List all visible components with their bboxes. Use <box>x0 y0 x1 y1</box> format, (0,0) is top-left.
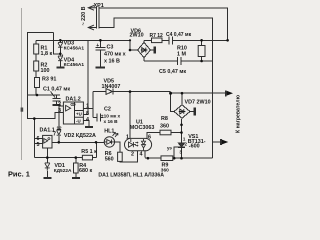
svg-text:1 М: 1 М <box>177 51 186 57</box>
svg-text:+U: +U <box>76 112 82 117</box>
svg-text:470 мк x: 470 мк x <box>104 51 126 57</box>
svg-text:К нагревателю: К нагревателю <box>236 94 242 133</box>
svg-text:x 16 В: x 16 В <box>104 58 120 64</box>
svg-text:2: 2 <box>58 101 61 107</box>
svg-text:+: + <box>96 43 99 49</box>
svg-text:R7 12: R7 12 <box>150 33 164 39</box>
svg-text:HL1: HL1 <box>104 128 114 134</box>
svg-text:3: 3 <box>58 108 61 114</box>
svg-text:x 16 В: x 16 В <box>104 119 119 125</box>
svg-text:R5 1 к: R5 1 к <box>81 149 97 155</box>
svg-text:1N4007: 1N4007 <box>102 84 121 90</box>
svg-text:R3 91: R3 91 <box>42 76 56 82</box>
svg-text:C5 0,47 мк: C5 0,47 мк <box>159 69 186 75</box>
svg-text:-600: -600 <box>189 144 200 150</box>
svg-text:C3: C3 <box>107 45 114 51</box>
svg-text:2W10: 2W10 <box>130 32 144 38</box>
svg-text:6: 6 <box>148 134 151 140</box>
svg-text:680 к: 680 к <box>79 168 92 174</box>
svg-text:+10 мк x: +10 мк x <box>101 114 121 120</box>
svg-text:4: 4 <box>140 152 143 158</box>
svg-text:100: 100 <box>41 68 50 74</box>
svg-text:4: 4 <box>86 117 89 123</box>
svg-text:1,8 к: 1,8 к <box>41 51 53 57</box>
svg-text:VD2 КД522А: VD2 КД522А <box>64 133 96 139</box>
svg-text:5: 5 <box>37 142 40 148</box>
svg-text:1: 1 <box>126 134 129 140</box>
svg-text:R8: R8 <box>161 116 168 122</box>
svg-text:2: 2 <box>131 152 134 158</box>
svg-text:VD7 2W10: VD7 2W10 <box>185 100 211 106</box>
svg-text:КС456А1: КС456А1 <box>64 62 85 68</box>
svg-text:Рис. 1: Рис. 1 <box>8 170 30 179</box>
svg-text:C4 0,47 мк: C4 0,47 мк <box>166 32 192 38</box>
svg-text:КД522А: КД522А <box>54 168 72 174</box>
svg-text:~ 220 В: ~ 220 В <box>81 6 87 25</box>
svg-text:7: 7 <box>53 132 56 138</box>
svg-text:560: 560 <box>105 157 114 163</box>
svg-text:C2: C2 <box>104 107 111 113</box>
svg-text:DA1 LM358П, HL1 АЛ336А: DA1 LM358П, HL1 АЛ336А <box>98 173 164 179</box>
svg-text:уэ: уэ <box>167 145 172 150</box>
svg-text:DA1.2: DA1.2 <box>66 96 81 102</box>
svg-text:XP1: XP1 <box>94 3 104 9</box>
svg-text:12: 12 <box>57 126 63 131</box>
svg-text:360: 360 <box>160 124 169 130</box>
svg-text:MOC3063: MOC3063 <box>130 125 155 131</box>
svg-text:-U: -U <box>76 118 81 123</box>
svg-text:C1 0,47 мк: C1 0,47 мк <box>43 87 70 93</box>
svg-text:1: 1 <box>86 104 89 110</box>
svg-text:КС456А1: КС456А1 <box>64 45 85 51</box>
